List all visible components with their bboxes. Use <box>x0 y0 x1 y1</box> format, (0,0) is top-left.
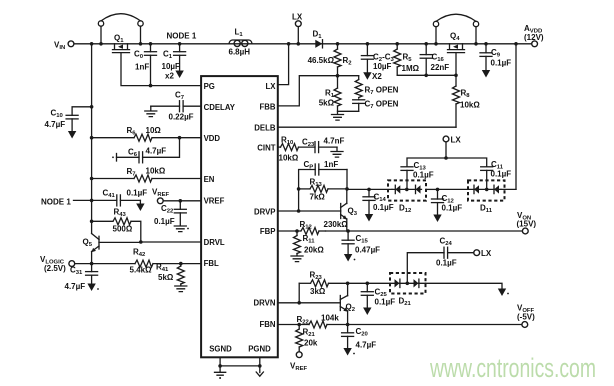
wire: VLOGIC / FBL line <box>75 262 201 266</box>
ground arrow (D21 output) <box>498 289 509 297</box>
svg-text:(2.5V): (2.5V) <box>44 264 66 273</box>
capacitor C7 OPEN <box>353 99 399 111</box>
svg-text:4.7nF: 4.7nF <box>324 137 345 146</box>
resistor R13 <box>297 170 349 202</box>
ground arrow (C20) <box>343 348 355 356</box>
ground arrow (C14) <box>365 214 373 222</box>
capacitor C6 <box>112 138 179 163</box>
wire: DRVN net <box>278 283 341 304</box>
terminal VREF (bottom) <box>290 352 308 372</box>
transistor Q4 p-MOSFET <box>448 32 465 53</box>
svg-text:0.1µF: 0.1µF <box>436 259 457 268</box>
diode D1 <box>313 30 323 48</box>
svg-text:0.1µF: 0.1µF <box>375 298 396 307</box>
capacitor C31 <box>65 264 98 291</box>
svg-text:20kΩ: 20kΩ <box>304 246 324 255</box>
capacitor C14 <box>363 188 394 214</box>
ground (R11) <box>291 256 303 262</box>
svg-text:10Ω: 10Ω <box>146 126 162 135</box>
svg-text:46.5kΩ: 46.5kΩ <box>308 56 335 65</box>
terminal VREF (left) <box>152 188 201 204</box>
resistor R43 <box>92 208 141 243</box>
capacitor C0 <box>134 44 157 86</box>
ground arrow (C12) <box>433 215 441 223</box>
svg-text:4.7µF: 4.7µF <box>356 341 377 350</box>
svg-text:DRVN: DRVN <box>254 299 276 308</box>
resistor R2 <box>308 44 353 76</box>
diode pair D12 <box>388 180 438 214</box>
capacitor C16 <box>420 44 449 76</box>
svg-text:4.7µF: 4.7µF <box>146 147 167 156</box>
svg-text:1nF: 1nF <box>135 62 149 71</box>
terminal VLOGIC <box>40 255 75 273</box>
wire: D21 output to arrow <box>426 283 503 288</box>
resistor R6 <box>92 126 202 141</box>
ground (R41) <box>175 286 187 292</box>
svg-text:FBP: FBP <box>260 227 276 236</box>
svg-text:1MΩ: 1MΩ <box>402 64 420 73</box>
capacitor C9 <box>480 44 511 70</box>
terminal VOFF <box>517 304 535 328</box>
IC U1 controller box <box>201 76 278 357</box>
svg-text:6.8µH: 6.8µH <box>229 48 251 57</box>
svg-text:230kΩ: 230kΩ <box>324 220 349 229</box>
wire: C7 OPEN to R1 ground <box>338 110 359 112</box>
svg-text:x2: x2 <box>165 72 174 81</box>
ground arrow (C41) <box>136 200 144 211</box>
resistor R11 <box>294 231 325 256</box>
svg-text:10kΩ: 10kΩ <box>146 167 166 176</box>
svg-text:500Ω: 500Ω <box>113 225 133 234</box>
svg-text:PG: PG <box>204 82 215 91</box>
ground arrow (C31) <box>87 284 99 292</box>
svg-text:0.1µF: 0.1µF <box>491 59 512 68</box>
node NODE 1 (left) + wire <box>41 197 117 206</box>
svg-text:EN: EN <box>204 175 215 184</box>
ground arrow (C1) <box>175 71 183 79</box>
svg-text:0.47µF: 0.47µF <box>355 246 380 255</box>
wire: AVDD vertical to D11 chain <box>515 44 517 190</box>
capacitor C12 <box>432 188 463 215</box>
svg-text:4.7µF: 4.7µF <box>65 282 86 291</box>
svg-text:20k: 20k <box>304 339 318 348</box>
transistor Q3 NPN <box>341 189 358 231</box>
jumper across Q1 <box>98 14 143 46</box>
svg-text:NODE 1: NODE 1 <box>41 197 71 206</box>
resistor R23 <box>299 271 390 297</box>
wire: Q1 gate to PG pin <box>121 53 201 88</box>
ground (C7) <box>145 106 157 116</box>
transistor Q1 p-MOSFET <box>113 34 130 53</box>
resistor R12 <box>300 220 349 235</box>
svg-text:DRVP: DRVP <box>254 208 276 217</box>
svg-text:X2: X2 <box>372 72 382 81</box>
svg-text:104k: 104k <box>321 314 339 323</box>
resistor R1 <box>319 76 341 114</box>
wire: VIN top rail <box>74 42 532 46</box>
resistor R22 <box>297 314 340 329</box>
svg-text:NODE 1: NODE 1 <box>167 32 197 41</box>
resistor R7 OPEN <box>355 76 398 98</box>
svg-text:PGND: PGND <box>248 345 271 354</box>
capacitor C2-C3 <box>361 44 394 81</box>
transistor Q5 NPN <box>83 234 141 264</box>
svg-text:DELB: DELB <box>254 124 276 133</box>
resistor R7 <box>92 167 202 183</box>
capacitor C15 <box>342 231 380 255</box>
wire: FBN / VOFF line <box>278 323 522 327</box>
wire: DELB line <box>278 126 456 128</box>
svg-text:VDD: VDD <box>204 134 221 143</box>
svg-text:22nF: 22nF <box>431 63 450 72</box>
svg-text:VREF: VREF <box>204 197 225 206</box>
ground (PGND) <box>256 357 263 376</box>
capacitor C23 <box>302 137 345 153</box>
diode pair D21 <box>390 273 426 307</box>
wire: DRVP line <box>278 209 341 213</box>
svg-text:0.1µF: 0.1µF <box>413 171 434 180</box>
resistor R21 <box>296 325 318 352</box>
svg-text:0.22µF: 0.22µF <box>169 113 194 122</box>
terminal AVDD <box>524 24 544 47</box>
ground (SGND) <box>215 357 260 379</box>
capacitor C25 <box>361 282 395 308</box>
svg-text:5kΩ: 5kΩ <box>319 99 335 108</box>
resistor R8 <box>453 75 481 127</box>
jumper across Q4 <box>433 14 478 45</box>
ground arrow (C25) <box>363 308 371 316</box>
svg-text:FBN: FBN <box>259 320 275 329</box>
capacitor C41 <box>103 189 148 206</box>
svg-text:LX: LX <box>266 82 277 91</box>
wire: flying-cap top line <box>407 156 487 166</box>
wire: DRVL line <box>139 240 201 244</box>
resistor R10 <box>279 136 316 163</box>
svg-text:FBB: FBB <box>259 103 275 112</box>
svg-text:10kΩ: 10kΩ <box>460 101 480 110</box>
ground arrow (C10) <box>68 131 76 139</box>
svg-text:LX: LX <box>451 136 462 145</box>
capacitor C24 <box>407 237 474 284</box>
ground arrow (C2-C3) <box>363 72 371 80</box>
capacitor C7 (CDELAY) <box>151 91 201 122</box>
svg-text:0.1µF: 0.1µF <box>373 203 394 212</box>
svg-text:0.1µF: 0.1µF <box>491 170 512 179</box>
inductor L1 <box>229 28 253 57</box>
svg-text:4.7µF: 4.7µF <box>45 120 66 129</box>
svg-text:7kΩ: 7kΩ <box>310 193 326 202</box>
resistor R42 <box>130 248 154 275</box>
capacitor CP <box>299 160 347 211</box>
svg-text:10µF: 10µF <box>162 62 181 71</box>
ground (C23) <box>331 147 343 157</box>
svg-text:LX: LX <box>481 249 492 258</box>
ground (R1) <box>332 115 344 121</box>
svg-text:(12V): (12V) <box>524 33 544 42</box>
wire: charge-pump top line (y=189.4) <box>347 188 392 190</box>
svg-text:www.cntronics.com: www.cntronics.com <box>429 353 596 383</box>
resistor R5 <box>394 44 420 76</box>
wire: FBP / VON line <box>278 229 523 233</box>
terminal VON <box>517 211 537 234</box>
svg-text:CDELAY: CDELAY <box>204 103 236 112</box>
transistor Q2 NPN <box>340 282 355 325</box>
resistor R41 <box>156 263 184 286</box>
svg-text:10µF: 10µF <box>373 62 392 71</box>
svg-text:LX: LX <box>292 13 303 22</box>
capacitor C10 <box>45 105 94 131</box>
svg-text:0.1µF: 0.1µF <box>154 217 175 226</box>
wire: left bus <box>90 44 94 234</box>
svg-text:3kΩ: 3kΩ <box>310 287 326 296</box>
wire: R5/C16/Q4-gate/R8 net <box>397 53 458 78</box>
capacitor C1 <box>162 44 186 81</box>
terminal LX (right) <box>474 249 492 258</box>
terminal LX (middle) <box>443 136 461 159</box>
terminal LX (top) <box>292 13 303 44</box>
svg-text:5.4kΩ: 5.4kΩ <box>130 266 153 275</box>
svg-text:SGND: SGND <box>209 345 232 354</box>
ground arrow (C15) <box>344 254 356 262</box>
svg-text:(-5V): (-5V) <box>517 312 535 321</box>
diode pair D11 <box>438 180 517 214</box>
ground (C22) <box>174 226 189 232</box>
svg-text:CINT: CINT <box>257 144 275 153</box>
svg-text:10kΩ: 10kΩ <box>279 154 299 163</box>
capacitor C22 <box>154 201 186 226</box>
svg-text:1nF: 1nF <box>324 160 338 169</box>
wire: FBB net <box>278 74 359 106</box>
svg-text:0.1µF: 0.1µF <box>442 204 463 213</box>
svg-text:DRVL: DRVL <box>204 238 225 247</box>
terminal VIN <box>54 40 74 51</box>
wire: rail to IC LX pin <box>278 44 289 85</box>
svg-text:(15V): (15V) <box>517 220 537 229</box>
svg-text:FBL: FBL <box>204 259 219 268</box>
svg-text:5kΩ: 5kΩ <box>158 273 174 282</box>
wire: CINT line <box>278 146 281 148</box>
ground arrow (C9) <box>482 70 490 78</box>
capacitor C11 <box>481 160 512 189</box>
svg-text:0.1µF: 0.1µF <box>127 189 148 198</box>
capacitor C20 <box>342 325 377 350</box>
capacitor C13 <box>401 161 434 189</box>
